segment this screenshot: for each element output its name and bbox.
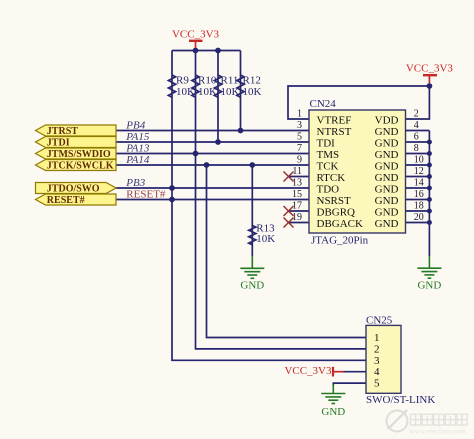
svg-text:DBGRQ: DBGRQ [317, 206, 356, 218]
wire: pin1 VTREF up and over to VCC [288, 86, 429, 119]
svg-text:JTMS/SWDIO: JTMS/SWDIO [47, 149, 111, 160]
svg-text:RTCK: RTCK [317, 172, 346, 184]
wire: PA14 net [116, 164, 309, 166]
svg-text:5: 5 [374, 378, 380, 390]
wire: pin6 stub [406, 141, 430, 143]
resistor R13 [249, 226, 256, 245]
svg-text:9: 9 [297, 155, 302, 166]
wire: pin16 stub [406, 199, 430, 201]
resistor R12 [237, 75, 244, 97]
svg-text:PB4: PB4 [125, 120, 145, 132]
svg-text:NTRST: NTRST [317, 126, 352, 138]
svg-text:CN24: CN24 [310, 98, 337, 110]
port RESET# [36, 194, 117, 206]
wire: PB3 net [116, 187, 309, 189]
wire: SWCLK vertical down to CN25 pin1 [207, 165, 367, 338]
CN24 right pin names [375, 114, 399, 230]
connector CN25 body [366, 315, 435, 406]
wire: RESET# net [116, 199, 309, 201]
wire: PA15 net [116, 141, 309, 143]
wire: pin11 stub [289, 176, 310, 178]
svg-text:4: 4 [374, 366, 380, 378]
svg-text:NSRST: NSRST [317, 195, 352, 207]
connector CN24 body [309, 98, 406, 247]
power VCC_3V3 top-left [172, 29, 220, 48]
wire: PB4 net [116, 130, 309, 132]
svg-text:JTAG_20Pin: JTAG_20Pin [311, 235, 369, 247]
wire: pin12 stub [406, 176, 430, 178]
ground GND right bus [417, 256, 441, 278]
CN24 left pin numbers [292, 109, 302, 224]
svg-text:6: 6 [414, 132, 419, 143]
svg-text:TMS: TMS [317, 149, 340, 161]
svg-text:18: 18 [414, 201, 424, 212]
wire: pin4 stub [406, 130, 430, 132]
port JTRST [36, 125, 117, 137]
svg-text:VCC_3V3: VCC_3V3 [406, 62, 454, 74]
svg-text:PB3: PB3 [125, 177, 145, 189]
wire: CN25 pin5 to GND [333, 383, 366, 385]
svg-text:VCC_3V3: VCC_3V3 [172, 29, 220, 41]
svg-text:GND: GND [375, 172, 399, 184]
CN24 left pin names [317, 114, 364, 230]
svg-text:1: 1 [297, 109, 302, 120]
svg-text:VTREF: VTREF [317, 114, 352, 126]
port JTMS/SWDIO [36, 148, 117, 160]
svg-text:10: 10 [414, 155, 424, 166]
svg-text:VCC_3V3: VCC_3V3 [284, 365, 332, 377]
svg-text:5: 5 [297, 132, 302, 143]
wire: GND bus right [428, 131, 430, 257]
svg-text:7: 7 [297, 143, 302, 154]
svg-text:GND: GND [321, 406, 345, 418]
wire: R9 vertical down to CN25 pin3 [172, 51, 366, 361]
svg-text:PA13: PA13 [125, 143, 150, 155]
svg-text:VDD: VDD [375, 114, 399, 126]
svg-text:16: 16 [414, 189, 424, 200]
wire: R10 vertical down to CN25 pin2 [196, 51, 367, 349]
svg-text:TDO: TDO [317, 183, 340, 195]
svg-text:JTDO/SWO: JTDO/SWO [47, 183, 100, 194]
svg-text:12: 12 [414, 166, 424, 177]
power VCC_3V3 top-right [406, 62, 454, 83]
svg-text:GND: GND [375, 160, 399, 172]
svg-text:GND: GND [375, 195, 399, 207]
svg-text:14: 14 [414, 178, 424, 189]
wire: pin19 stub [289, 222, 310, 224]
svg-text:20: 20 [414, 212, 424, 223]
port JTDO/SWO [36, 183, 117, 195]
node: junction dots [169, 48, 432, 225]
resistor R11 [214, 75, 221, 97]
wire: pin2 VDD to VCC [406, 86, 430, 119]
svg-text:GND: GND [375, 149, 399, 161]
wire: VCC rail above resistors [172, 50, 241, 52]
svg-text:DBGACK: DBGACK [317, 218, 364, 230]
watermark elecfans [387, 410, 468, 436]
wire: CN25 pin4 VCC stub blue part [344, 371, 367, 373]
svg-text:PA14: PA14 [125, 154, 150, 166]
svg-text:1: 1 [374, 332, 380, 344]
power VCC_3V3 at CN25 pin4 [284, 365, 343, 377]
svg-text:GND: GND [375, 137, 399, 149]
wire: pin14 stub [406, 187, 430, 189]
no-ERC X pin17 [284, 206, 294, 216]
svg-text:TCK: TCK [317, 160, 339, 172]
wire: R11 vertical down to PA15 [217, 51, 219, 143]
svg-text:CN25: CN25 [366, 315, 393, 327]
svg-text:GND: GND [375, 183, 399, 195]
svg-text:10K: 10K [256, 233, 275, 245]
resistor R9 [168, 75, 175, 97]
svg-text:SWO/ST-LINK: SWO/ST-LINK [366, 394, 435, 406]
svg-text:GND: GND [375, 126, 399, 138]
svg-text:JTCK/SWCLK: JTCK/SWCLK [47, 160, 114, 171]
CN25 pin numbers [374, 332, 380, 390]
no-ERC X pin19 [284, 218, 294, 228]
svg-text:3: 3 [374, 355, 380, 367]
svg-text:10K: 10K [243, 86, 262, 98]
no-ERC X pin11 [284, 172, 294, 182]
port JTDI [36, 137, 117, 149]
wire: pin18 stub [406, 210, 430, 212]
wire: R13 vertical TCK to GND [251, 165, 253, 257]
svg-text:GND: GND [375, 206, 399, 218]
svg-text:2: 2 [374, 343, 380, 355]
wire: pin17 stub [289, 210, 310, 212]
svg-text:TDI: TDI [317, 137, 336, 149]
wire: R12 vertical down to PB4 [240, 51, 242, 131]
svg-text:15: 15 [292, 189, 302, 200]
svg-text:JTDI: JTDI [47, 137, 70, 148]
ground GND under R13 [240, 256, 264, 278]
svg-text:3: 3 [297, 120, 302, 131]
svg-text:RESET#: RESET# [126, 188, 166, 200]
svg-text:8: 8 [414, 143, 419, 154]
svg-text:GND: GND [240, 280, 264, 292]
wire: pin8 stub [406, 153, 430, 155]
svg-text:www.elecfans.com: www.elecfans.com [409, 427, 466, 436]
svg-text:13: 13 [292, 178, 302, 189]
resistor R10 [192, 75, 199, 97]
svg-text:PA15: PA15 [125, 131, 150, 143]
CN24 right pin numbers [414, 109, 424, 224]
wire: pin20 stub [406, 222, 430, 224]
svg-text:JTRST: JTRST [47, 126, 78, 137]
svg-text:4: 4 [414, 120, 419, 131]
wire: pin10 stub [406, 164, 430, 166]
svg-text:11: 11 [292, 166, 302, 177]
svg-text:RESET#: RESET# [47, 195, 85, 206]
svg-text:2: 2 [414, 109, 419, 120]
svg-text:GND: GND [375, 218, 399, 230]
svg-text:GND: GND [417, 280, 441, 292]
wire: PA13 net [116, 153, 309, 155]
ground GND at CN25 pin5 [321, 385, 345, 404]
port JTCK/SWCLK [36, 160, 117, 172]
